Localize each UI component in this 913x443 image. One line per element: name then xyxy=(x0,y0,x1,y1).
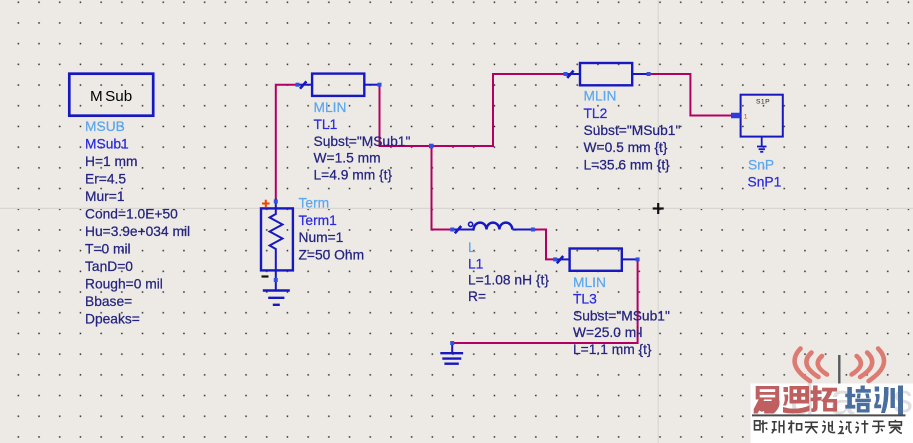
svg-text:Cond=1.0E+50: Cond=1.0E+50 xyxy=(85,207,178,222)
svg-text:L1: L1 xyxy=(468,256,483,271)
svg-text:TanD=0: TanD=0 xyxy=(85,259,133,274)
svg-text:H=1 mm: H=1 mm xyxy=(85,154,138,169)
svg-text:Rough=0 mil: Rough=0 mil xyxy=(85,277,163,292)
svg-text:SnP1: SnP1 xyxy=(748,175,782,190)
svg-text:MLIN: MLIN xyxy=(314,100,347,115)
svg-text:1: 1 xyxy=(744,113,748,120)
svg-text:MLIN: MLIN xyxy=(584,89,617,104)
svg-text:MLIN: MLIN xyxy=(573,275,606,290)
svg-text:Subst="MSub1": Subst="MSub1" xyxy=(584,123,681,138)
svg-text:L: L xyxy=(468,240,476,255)
svg-text:MSub1: MSub1 xyxy=(85,137,129,152)
svg-text:W=0.5 mm {t}: W=0.5 mm {t} xyxy=(584,140,668,155)
svg-text:Subst="MSub1": Subst="MSub1" xyxy=(314,134,411,149)
svg-text:W=25.0 mil: W=25.0 mil xyxy=(573,325,642,340)
svg-text:TL1: TL1 xyxy=(314,117,338,132)
svg-text:R=: R= xyxy=(468,289,486,304)
svg-text:TL2: TL2 xyxy=(584,106,608,121)
svg-text:Term: Term xyxy=(299,196,330,211)
svg-text:Mur=1: Mur=1 xyxy=(85,189,125,204)
svg-text:MSub: MSub xyxy=(90,88,132,105)
svg-text:Hu=3.9e+034 mil: Hu=3.9e+034 mil xyxy=(85,224,190,239)
svg-text:TL3: TL3 xyxy=(573,292,597,307)
svg-text:L=1.08 nH {t}: L=1.08 nH {t} xyxy=(468,273,549,288)
svg-text:L=35.6 mm {t}: L=35.6 mm {t} xyxy=(584,157,671,172)
svg-text:SnP: SnP xyxy=(748,158,774,173)
svg-text:Dpeaks=: Dpeaks= xyxy=(85,312,140,327)
svg-text:Num=1: Num=1 xyxy=(299,230,344,245)
svg-text:Subst="MSub1": Subst="MSub1" xyxy=(573,308,670,323)
svg-text:L=1.1 mm {t}: L=1.1 mm {t} xyxy=(573,342,652,357)
svg-text:W=1.5 mm: W=1.5 mm xyxy=(314,151,381,166)
svg-text:MSUB: MSUB xyxy=(85,119,125,134)
svg-text:Er=4.5: Er=4.5 xyxy=(85,172,126,187)
svg-text:T=0 mil: T=0 mil xyxy=(85,242,131,257)
svg-text:Term1: Term1 xyxy=(299,213,337,228)
svg-text:Bbase=: Bbase= xyxy=(85,294,132,309)
svg-text:Z=50 Ohm: Z=50 Ohm xyxy=(299,248,365,263)
svg-text:L=4.9 mm {t}: L=4.9 mm {t} xyxy=(314,168,393,183)
svg-text:S1P: S1P xyxy=(756,99,770,106)
